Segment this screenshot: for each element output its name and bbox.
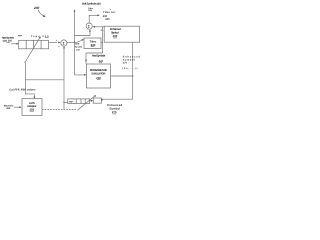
svg-text:215: 215: [76, 48, 80, 51]
soft symbols into evaluator: [75, 42, 85, 75]
decoder Tdec 220: [84, 38, 101, 49]
subtractor output Tdec Err: [89, 15, 97, 23]
svg-text:Soft Symbols y(n): Soft Symbols y(n): [82, 3, 101, 6]
svg-text:Σ: Σ: [63, 41, 65, 45]
wire node to subtractor (up branch): [75, 31, 91, 35]
wire delay to FBF: [92, 100, 94, 102]
coefficient branch horizontal: [25, 79, 64, 81]
summer S1: [61, 40, 67, 46]
svg-text:240: 240: [105, 18, 110, 21]
svg-text:Sy y(n): Sy y(n): [75, 46, 82, 49]
svg-text:(Pn,...)>: (Pn,...)>: [122, 67, 138, 70]
adaptor LMS 250: [22, 99, 42, 116]
svg-text:Tdec Err: Tdec Err: [103, 11, 116, 14]
leader arrow for 200: [38, 10, 43, 16]
feedback wire from FBF up into summer: [63, 48, 65, 109]
soft symbol vertical wire: [74, 11, 76, 42]
evaluator output wire: [111, 75, 133, 77]
coefficient wire left: [25, 62, 34, 97]
svg-text:FFF: FFF: [18, 35, 23, 38]
wire slicer err to LMS: [14, 106, 20, 108]
generator Enhanced Symbol 290: [104, 26, 139, 42]
wire FFF to summer: [49, 41, 58, 43]
wire hard symbols to evaluator: [86, 53, 103, 64]
wire Tdec output right: [101, 41, 103, 43]
svg-text:FBF: FBF: [69, 101, 74, 104]
svg-text:Σ: Σ: [88, 24, 90, 28]
svg-text:275: 275: [123, 62, 128, 65]
svg-text:262: 262: [6, 107, 11, 110]
enhanced symbol bottom wire: [101, 98, 132, 100]
svg-text:Hard Symbols: Hard Symbols: [92, 55, 106, 58]
FFF tap-adjust diagonal arrow: [25, 38, 40, 63]
FBF output stub to feedback wire: [64, 101, 68, 103]
svg-text:200: 200: [33, 6, 40, 10]
svg-text:+: +: [58, 45, 60, 48]
wire input to FFF: [11, 43, 17, 45]
enhanced symbol vertical wire right side: [132, 42, 134, 99]
svg-text:y(n) 202: y(n) 202: [3, 39, 13, 42]
tiny leader mark: [110, 9, 111, 10]
junction dot: [74, 42, 75, 43]
vertical wire x=102.6: [102, 27, 104, 53]
filter FBF: [68, 99, 90, 104]
svg-text:+: +: [56, 39, 58, 42]
evaluator PROBABILISTIC 230: [87, 64, 111, 88]
delay block: [93, 98, 101, 103]
dashed coefficient wire from LMS: [42, 109, 77, 111]
filter FFF: [19, 40, 49, 49]
svg-text:Cal FFF, FBF values: Cal FFF, FBF values: [9, 88, 36, 91]
svg-text:Slicer Err: Slicer Err: [4, 104, 14, 107]
svg-text:Soft: Soft: [75, 43, 79, 46]
FBF tap-adjust diagonal arrow: [77, 96, 94, 110]
wire summer output to node: [67, 40, 83, 42]
subtractor S2: [86, 23, 92, 29]
svg-text:275: 275: [112, 110, 117, 114]
wire enhanced into subtractor: [95, 26, 105, 28]
